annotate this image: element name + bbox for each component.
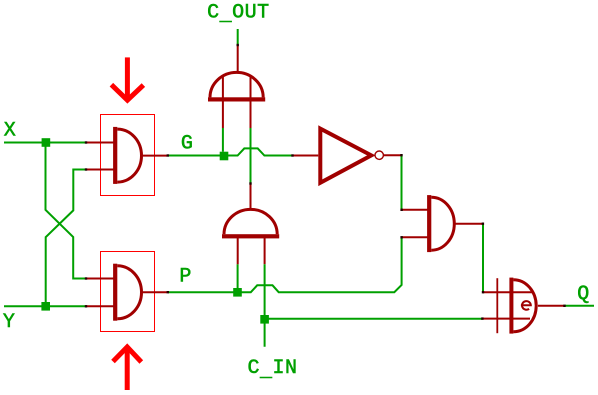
and-gate U6 output stub — [455, 223, 483, 225]
wire G net: U1 output to inverter input with hop over vertical — [169, 148, 293, 155]
pin end dot U4 out — [249, 182, 251, 184]
and-gate U4 input pin stubs — [238, 236, 265, 264]
or-gate U3 input pin stubs (reach into body) — [223, 76, 251, 128]
wire C_IN vertical — [264, 264, 266, 346]
xor-gate U7 body — [509, 278, 513, 334]
svg-text:Q: Q — [577, 283, 589, 306]
svg-text:G: G — [181, 133, 193, 156]
wire C_IN junction to XOR input2 — [265, 318, 483, 320]
pin end dot U6 in1 — [400, 209, 402, 211]
and-gate U2 body — [113, 264, 117, 321]
selection box around gate U2 — [101, 252, 155, 332]
wire Q output — [565, 305, 594, 307]
pin end dot inverter out — [400, 154, 402, 156]
inverter U5 input stub — [293, 155, 318, 157]
selection box around gate U1 — [101, 115, 155, 196]
pin end dot U3 out — [237, 44, 239, 46]
and-gate U2 output stub — [143, 291, 167, 293]
and-gate U1 body — [113, 127, 117, 184]
wire Y to crossover to G-gate bottom input — [46, 170, 86, 307]
pin end dot XOR out — [563, 305, 565, 307]
pin end dot U6 out — [482, 223, 484, 225]
pin end dot inverter in — [291, 154, 293, 156]
xor-gate U7 extra input bar — [496, 278, 498, 333]
pin end dot U1 out — [167, 154, 169, 156]
pin end dot U2 out — [167, 291, 169, 293]
red annotation arrow pointing up at U2 — [125, 349, 130, 391]
inverter U5 bubble — [375, 151, 383, 159]
pin end dot U1 in2 — [85, 168, 87, 170]
svg-text:Y: Y — [3, 311, 15, 334]
and-gate U1 (G gate) input pin stubs — [86, 143, 114, 170]
and-gate U6 input pin stubs — [402, 210, 428, 238]
wire X to crossover to P-gate top input — [46, 143, 86, 279]
xor-gate U7 output stub — [538, 305, 564, 307]
pin end dot U6 in2 — [400, 236, 402, 238]
wire inverter output down to AND U6 input1 — [401, 156, 403, 210]
and-gate U6 body — [427, 195, 431, 252]
wire Y input horizontal — [4, 305, 86, 307]
pin end dot U2 in1 — [85, 277, 87, 279]
svg-text:C_OUT: C_OUT — [207, 1, 270, 27]
pin end dot XOR in1 — [482, 291, 484, 293]
svg-text:C_IN: C_IN — [248, 357, 298, 383]
xor-gate U7 equivalence letter e — [521, 301, 531, 310]
wire X input horizontal — [4, 142, 86, 144]
svg-text:X: X — [4, 119, 16, 142]
and-gate U2 (P gate) input pin stubs — [86, 279, 114, 307]
and-gate U4 (middle, P AND C_IN) body pointing up — [222, 234, 279, 238]
pin end dot U1 in1 — [85, 141, 87, 143]
xor-gate U7 input lines (reach into body) — [482, 292, 533, 318]
or-gate U3 (C_OUT gate) body pointing up — [208, 97, 265, 101]
red annotation arrow pointing down at U1 — [125, 57, 130, 98]
wire P net: U2 output to right-AND input2 with hop — [169, 237, 402, 292]
or-gate U3 output stub — [237, 45, 239, 73]
inverter U5 body — [320, 129, 371, 183]
pin end dot XOR in2 — [481, 317, 483, 319]
wire P junction up to AND-gate U4 input1 — [237, 264, 239, 288]
wire C_OUT stub — [237, 29, 239, 45]
pin end dot U2 in2 — [85, 305, 87, 307]
wire G junction up to OR-gate U3 input1 — [222, 128, 224, 152]
and-gate U4 output stub — [250, 183, 252, 209]
wire U6 output down to XOR input1 — [482, 224, 484, 293]
junction Y node — [41, 302, 50, 311]
junction G node — [220, 152, 229, 161]
wire U4 output up to U3 input2 — [250, 128, 252, 184]
svg-text:P: P — [179, 266, 191, 289]
junction P node — [233, 288, 242, 297]
inverter U5 output stub — [383, 154, 401, 156]
junction C_IN node — [260, 315, 269, 324]
and-gate U1 output stub — [143, 155, 167, 157]
junction X node — [42, 138, 51, 147]
